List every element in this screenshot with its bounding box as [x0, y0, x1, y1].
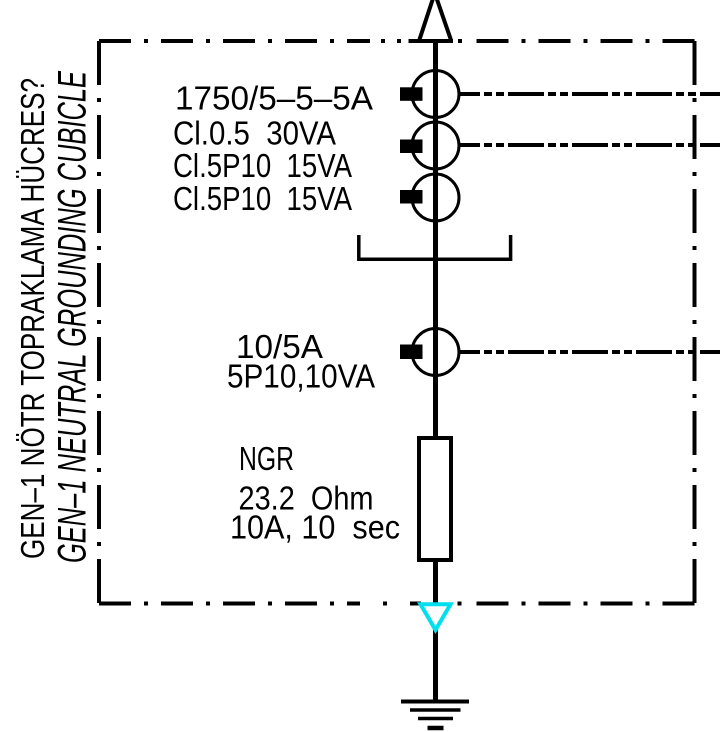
generator neutral connection triangle (top) [409, 0, 454, 41]
CT2 terminal mark [400, 345, 423, 360]
current transformer CT1 core 1 (1750/5-5-5A) [412, 71, 459, 118]
cubicle boundary bottom edge right run (dash-dot) [470, 602, 695, 606]
svg-text:GEN–1 NÖTR TOPRAKLAMA HÜCRES?: GEN–1 NÖTR TOPRAKLAMA HÜCRES? [14, 78, 51, 559]
current transformer CT2 (10/5A) [412, 329, 459, 376]
CT1 core 3 terminal mark [400, 190, 423, 204]
svg-text:Cl.0.5 30VA: Cl.0.5 30VA [173, 115, 336, 152]
wire: CT1 core 2 secondary lead (phantom dashed) [460, 143, 720, 147]
cubicle boundary top edge dot [397, 39, 401, 43]
svg-text:Cl.5P10 15VA: Cl.5P10 15VA [173, 147, 352, 184]
cubicle boundary top edge dot right of triangle [458, 39, 462, 43]
cubicle boundary right edge (dash-dot) [693, 41, 697, 604]
wire: main neutral conductor (upper section, triangle to resistor) [433, 40, 438, 436]
CT1 secondary grouping bracket [359, 235, 511, 259]
wire: CT1 secondary lead (phantom dashed) [460, 92, 720, 96]
cubicle boundary bottom edge dot right of earth triangle [458, 602, 462, 606]
cubicle boundary bottom edge dot [383, 602, 387, 606]
cubicle boundary top edge left run (dash-dot) [99, 39, 370, 43]
cubicle boundary left edge (dash-dot) [97, 41, 101, 604]
cubicle boundary bottom edge dash left of earth triangle [410, 602, 421, 606]
cubicle boundary bottom edge left run (dash-dot) [99, 602, 360, 606]
svg-text:NGR: NGR [239, 440, 294, 477]
cubicle boundary top edge dot [381, 39, 385, 43]
ground symbol [401, 702, 469, 729]
current transformer CT1 core 2 [412, 122, 459, 169]
svg-text:10A, 10 sec: 10A, 10 sec [230, 509, 400, 546]
svg-text:Cl.5P10 15VA: Cl.5P10 15VA [173, 180, 352, 217]
wire: earth lead below cyan triangle [433, 629, 438, 702]
wire: CT2 secondary lead (phantom dashed) [460, 350, 720, 354]
resistor NGR (neutral grounding resistor) [419, 438, 451, 560]
svg-text:5P10,10VA: 5P10,10VA [227, 358, 375, 395]
svg-text:GEN–1 NEUTRAL GROUNDING CUBICL: GEN–1 NEUTRAL GROUNDING CUBICLE [49, 71, 94, 563]
svg-text:1750/5–5–5A: 1750/5–5–5A [175, 80, 373, 117]
CT1 core 2 terminal mark [400, 140, 423, 154]
cubicle boundary top edge right run (dash-dot) [470, 39, 695, 43]
CT1 terminal mark [400, 87, 423, 101]
wire: main neutral conductor (resistor to earth triangle) [433, 562, 438, 604]
earth connection triangle (cyan, at cubicle boundary) [421, 604, 451, 630]
current transformer CT1 core 3 [412, 174, 459, 221]
